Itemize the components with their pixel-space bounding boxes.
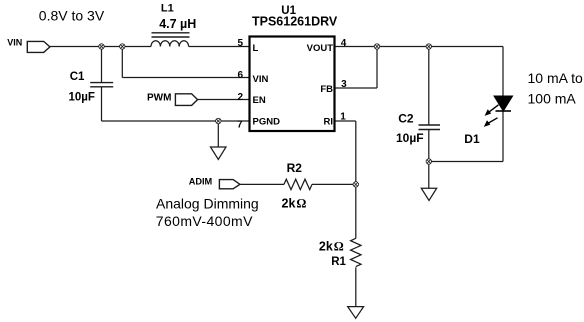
LED D1: [494, 96, 513, 111]
svg-text:10µF: 10µF: [69, 91, 95, 103]
net tag PWM: [175, 94, 197, 106]
svg-text:C1: C1: [70, 71, 85, 83]
svg-text:1: 1: [340, 111, 346, 122]
svg-text:L1: L1: [161, 3, 174, 15]
svg-text:L: L: [253, 43, 259, 54]
svg-text:VOUT: VOUT: [307, 43, 334, 54]
svg-text:PGND: PGND: [253, 117, 281, 128]
svg-text:760mV-400mV: 760mV-400mV: [156, 213, 253, 229]
LED D1 emission arrow 1: [488, 105, 499, 113]
svg-text:VIN: VIN: [253, 74, 269, 85]
resistor R1: [351, 238, 361, 266]
wire ground stub on PGND row: [217, 121, 219, 147]
svg-text:4: 4: [341, 38, 347, 49]
inductor L1 coil: [151, 41, 189, 47]
resistor R2: [284, 179, 312, 189]
wire bottom return row: [429, 161, 503, 163]
capacitor C1 plates: [90, 82, 113, 84]
svg-text:RI: RI: [324, 117, 334, 128]
svg-text:6: 6: [237, 70, 243, 81]
svg-text:PWM: PWM: [147, 93, 171, 104]
wire C2 vertical top: [428, 47, 430, 126]
wire C1 branch vertical top: [101, 47, 103, 83]
node junction (PGND ground tap): [216, 118, 221, 123]
wire RI vertical down to R2 node: [355, 121, 357, 184]
wire PGND row: [102, 120, 250, 122]
wire RI stub: [335, 120, 356, 122]
svg-text:2: 2: [238, 92, 244, 103]
wire VOUT row: [335, 46, 503, 48]
svg-text:3: 3: [341, 79, 347, 90]
wire VIN branch to pin 6: [122, 77, 249, 79]
wire R1 to ground: [355, 267, 357, 306]
svg-text:C2: C2: [398, 112, 414, 126]
net tag VIN: [27, 41, 50, 52]
svg-text:VIN: VIN: [7, 38, 22, 48]
svg-text:ADIM: ADIM: [189, 176, 213, 186]
svg-text:R1: R1: [331, 256, 346, 268]
svg-text:5: 5: [237, 38, 243, 49]
wire FB stub: [335, 87, 377, 89]
svg-text:EN: EN: [253, 95, 266, 106]
node junction (VIN branch tap): [120, 44, 125, 49]
wire ADIM tag to R2: [240, 183, 284, 185]
svg-text:10µF: 10µF: [396, 131, 424, 145]
svg-text:4.7 µH: 4.7 µH: [159, 17, 196, 31]
svg-text:2kΩ: 2kΩ: [282, 197, 307, 211]
wire VIN tag to L1: [50, 46, 151, 48]
wire R2 to node: [312, 183, 356, 185]
wire R2 node down to R1: [355, 184, 357, 238]
wire L1 to pin 5 (L): [189, 46, 249, 48]
node junction (R2/RI/R1 node): [353, 182, 358, 187]
node junction (FB tap): [374, 44, 379, 49]
svg-text:10 mA to: 10 mA to: [528, 70, 583, 86]
svg-text:100 mA: 100 mA: [528, 91, 577, 107]
wire C1 bottom to PGND row: [101, 87, 103, 121]
ground (R1): [348, 307, 364, 319]
LED D1 emission arrow 2: [487, 118, 498, 124]
wire C2 vertical bottom: [428, 130, 430, 189]
svg-text:2kΩ: 2kΩ: [319, 239, 344, 253]
svg-text:Analog Dimming: Analog Dimming: [156, 196, 259, 212]
svg-text:TPS61261DRV: TPS61261DRV: [252, 15, 338, 29]
svg-text:D1: D1: [464, 132, 480, 146]
svg-text:0.8V to 3V: 0.8V to 3V: [39, 7, 105, 23]
svg-text:7: 7: [237, 120, 243, 131]
node junction (C2 top tap): [426, 44, 431, 49]
svg-text:FB: FB: [320, 84, 333, 95]
inductor L1 core bars: [152, 32, 190, 34]
wire VIN branch vertical: [121, 47, 123, 78]
wire FB vertical to VOUT: [376, 47, 378, 89]
wire LED cathode vertical: [502, 111, 504, 162]
wire LED anode vertical: [502, 47, 504, 97]
node junction (C1 tap): [99, 44, 104, 49]
node junction (C2 bottom tap): [426, 159, 431, 164]
op-amp U1 box TPS61261DRV: [250, 37, 335, 132]
ground (C2): [421, 188, 436, 200]
svg-text:R2: R2: [287, 161, 303, 175]
net tag ADIM: [219, 180, 240, 189]
wire PWM tag to pin 2 EN: [198, 99, 249, 101]
capacitor C2 plates: [419, 124, 441, 126]
ground (PGND row): [211, 147, 227, 160]
